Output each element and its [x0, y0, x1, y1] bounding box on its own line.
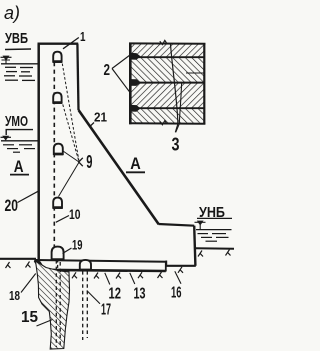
svg-text:2: 2: [104, 62, 111, 79]
svg-text:10: 10: [69, 206, 81, 222]
svg-text:3: 3: [172, 135, 180, 155]
svg-text:21: 21: [94, 110, 107, 125]
svg-text:13: 13: [134, 286, 146, 303]
svg-text:16: 16: [171, 285, 182, 302]
svg-text:20: 20: [5, 196, 19, 215]
svg-text:1: 1: [80, 29, 86, 44]
svg-text:А: А: [14, 157, 24, 176]
svg-text:15: 15: [21, 309, 38, 326]
svg-text:УМО: УМО: [5, 113, 28, 130]
svg-text:УНБ: УНБ: [199, 204, 225, 221]
svg-text:9: 9: [86, 152, 92, 172]
svg-text:А: А: [130, 154, 141, 173]
svg-text:17: 17: [101, 302, 111, 319]
svg-text:УВБ: УВБ: [5, 30, 28, 47]
svg-text:18: 18: [9, 288, 20, 303]
svg-text:12: 12: [109, 286, 122, 303]
svg-text:19: 19: [72, 237, 83, 253]
svg-text:а): а): [4, 3, 20, 23]
